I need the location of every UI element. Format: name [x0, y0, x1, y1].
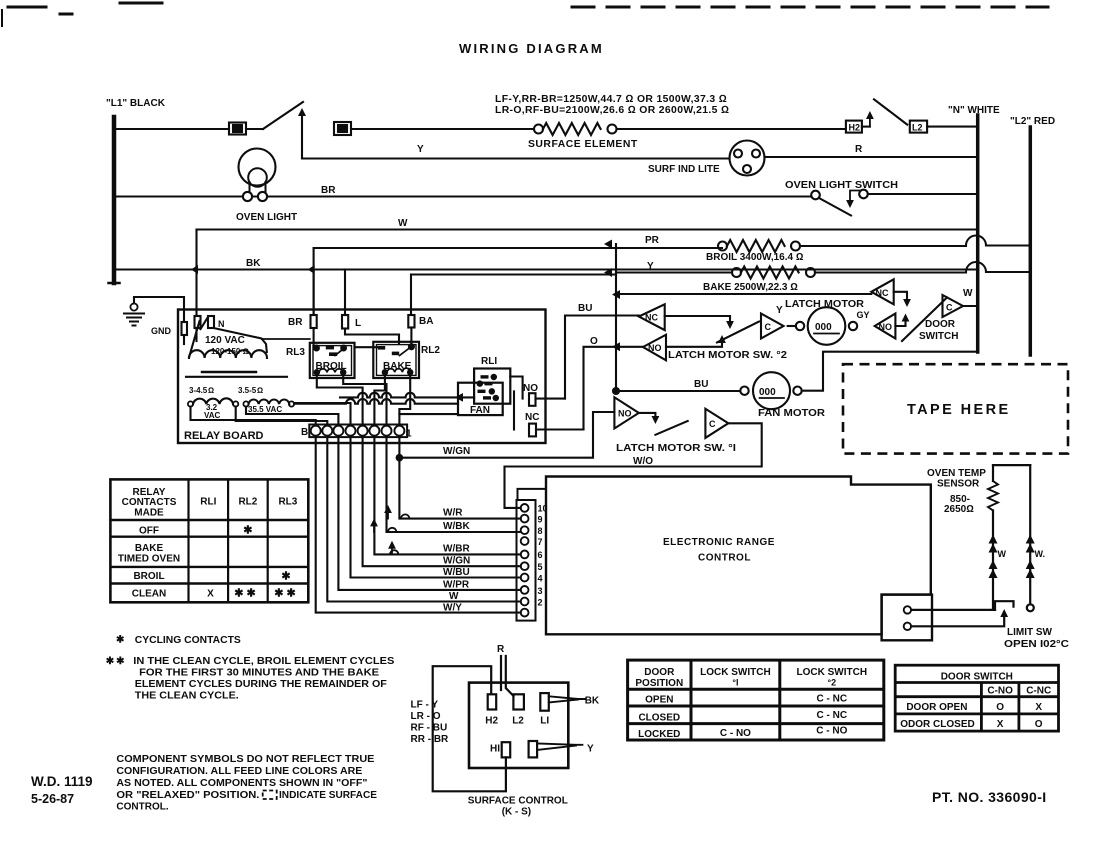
svg-text:LI: LI — [540, 716, 549, 727]
svg-text:W.: W. — [1035, 549, 1046, 559]
svg-text:O: O — [590, 336, 598, 347]
svg-text:NO: NO — [648, 343, 662, 353]
svg-text:X: X — [997, 719, 1004, 730]
svg-text:ODOR CLOSED: ODOR CLOSED — [900, 719, 974, 730]
svg-text:LR - O: LR - O — [411, 711, 441, 722]
svg-text:PT. NO. 336090-I: PT. NO. 336090-I — [932, 789, 1047, 805]
svg-text:RL2: RL2 — [421, 345, 440, 356]
svg-text:W/GN: W/GN — [443, 556, 470, 567]
svg-text:TIMED OVEN: TIMED OVEN — [118, 554, 180, 565]
svg-text:C: C — [709, 419, 716, 429]
svg-text:AS NOTED. ALL COMPONENTS SHOWN: AS NOTED. ALL COMPONENTS SHOWN IN "OFF" — [116, 778, 367, 789]
svg-text:°I: °I — [732, 678, 738, 688]
svg-text:CLEAN: CLEAN — [132, 589, 166, 600]
svg-text:RL2: RL2 — [238, 497, 257, 508]
svg-text:W/BK: W/BK — [443, 521, 470, 532]
svg-text:SWITCH: SWITCH — [919, 331, 958, 342]
svg-text:NC: NC — [525, 412, 539, 423]
svg-text:LIMIT SW: LIMIT SW — [1007, 627, 1053, 638]
svg-text:FOR THE FIRST 30 MINUTES AND T: FOR THE FIRST 30 MINUTES AND THE BAKE — [139, 668, 379, 679]
svg-text:INDICATE SURFACE: INDICATE SURFACE — [279, 790, 377, 801]
svg-text:C - NO: C - NO — [720, 728, 751, 739]
svg-text:RLI: RLI — [200, 497, 216, 508]
svg-text:RL3: RL3 — [278, 497, 297, 508]
svg-text:COMPONENT SYMBOLS DO NOT REFLE: COMPONENT SYMBOLS DO NOT REFLECT TRUE — [116, 754, 374, 765]
svg-text:HI: HI — [490, 744, 500, 755]
svg-text:✱✱: ✱✱ — [274, 588, 298, 600]
svg-text:LATCH MOTOR SW. °2: LATCH MOTOR SW. °2 — [668, 350, 787, 361]
svg-text:✱: ✱ — [243, 525, 252, 537]
svg-text:VAC: VAC — [204, 411, 221, 420]
svg-text:RR - BR: RR - BR — [411, 734, 450, 745]
svg-text:NO: NO — [618, 409, 632, 419]
svg-text:5: 5 — [538, 562, 543, 572]
svg-text:OVEN LIGHT: OVEN LIGHT — [236, 212, 297, 223]
svg-text:CONTROL: CONTROL — [698, 553, 751, 564]
svg-text:SURFACE ELEMENT: SURFACE ELEMENT — [528, 139, 638, 150]
svg-text:N: N — [218, 319, 225, 329]
svg-text:W/Y: W/Y — [443, 603, 462, 614]
svg-text:2: 2 — [538, 598, 543, 608]
svg-text:L2: L2 — [912, 123, 923, 133]
svg-text:BR: BR — [321, 185, 336, 196]
svg-text:O: O — [996, 702, 1004, 713]
svg-text:LF - Y: LF - Y — [411, 700, 439, 711]
svg-text:W/BR: W/BR — [443, 544, 470, 555]
svg-text:DOOR OPEN: DOOR OPEN — [906, 702, 967, 713]
svg-text:LATCH MOTOR SW. °I: LATCH MOTOR SW. °I — [616, 443, 736, 454]
svg-text:H2: H2 — [849, 123, 861, 133]
svg-text:TAPE HERE: TAPE HERE — [907, 402, 1011, 418]
svg-text:35.5 VAC: 35.5 VAC — [248, 405, 282, 414]
svg-text:C-NO: C-NO — [987, 686, 1013, 697]
svg-text:BU: BU — [694, 379, 708, 390]
svg-text:DOOR: DOOR — [644, 667, 675, 678]
svg-text:000: 000 — [815, 322, 832, 333]
svg-text:✱✱: ✱✱ — [106, 656, 127, 667]
svg-text:BROIL 3400W,16.4 Ω: BROIL 3400W,16.4 Ω — [706, 252, 804, 263]
svg-text:CONTROL.: CONTROL. — [116, 802, 168, 813]
svg-text:BAKE: BAKE — [383, 361, 412, 372]
svg-text:W/O: W/O — [633, 456, 653, 467]
svg-text:"L2" RED: "L2" RED — [1010, 116, 1055, 127]
svg-text:C: C — [946, 303, 953, 313]
svg-text:BAKE 2500W,22.3 Ω: BAKE 2500W,22.3 Ω — [703, 282, 798, 293]
svg-text:NO: NO — [879, 322, 893, 332]
svg-text:BA: BA — [419, 316, 433, 327]
svg-text:BU: BU — [578, 303, 592, 314]
svg-text:Y: Y — [587, 744, 594, 755]
svg-text:CONTACTS: CONTACTS — [122, 497, 177, 508]
svg-text:C - NC: C - NC — [817, 694, 848, 705]
svg-text:L: L — [355, 318, 361, 329]
svg-text:10: 10 — [538, 504, 548, 514]
svg-text:"N" WHITE: "N" WHITE — [948, 105, 1000, 116]
svg-text:DOOR: DOOR — [925, 319, 956, 330]
svg-text:C - NC: C - NC — [817, 710, 848, 721]
svg-text:LR-O,RF-BU=2100W,26.6 Ω OR 2: LR-O,RF-BU=2100W,26.6 Ω OR 2600W,21.5 Ω — [495, 105, 729, 116]
svg-text:X: X — [207, 589, 214, 600]
svg-text:NC: NC — [645, 313, 658, 323]
svg-text:LOCKED: LOCKED — [638, 729, 680, 740]
svg-text:BROIL: BROIL — [316, 361, 347, 372]
svg-text:W: W — [963, 288, 973, 299]
svg-text:CONFIGURATION. ALL FEED LINE C: CONFIGURATION. ALL FEED LINE COLORS ARE — [116, 766, 362, 777]
svg-text:SURF IND LITE: SURF IND LITE — [648, 164, 720, 175]
svg-text:H2: H2 — [485, 716, 498, 727]
svg-text:BAKE: BAKE — [135, 543, 164, 554]
svg-text:W/GN: W/GN — [443, 446, 470, 457]
svg-text:(K - S): (K - S) — [502, 807, 531, 818]
svg-text:NC: NC — [876, 288, 889, 298]
svg-text:8: 8 — [538, 526, 543, 536]
svg-text:ELECTRONIC RANGE: ELECTRONIC RANGE — [663, 537, 775, 548]
svg-text:LOCK SWITCH: LOCK SWITCH — [797, 667, 868, 678]
svg-text:9: 9 — [538, 515, 543, 525]
svg-text:ELEMENT CYCLES DURING THE REMA: ELEMENT CYCLES DURING THE REMAINDER OF — [135, 679, 387, 690]
svg-text:W: W — [998, 549, 1007, 559]
svg-text:CLOSED: CLOSED — [638, 713, 680, 724]
svg-text:✱: ✱ — [116, 635, 125, 646]
svg-text:W.D. 1119: W.D. 1119 — [31, 774, 93, 789]
svg-text:OFF: OFF — [139, 526, 159, 537]
svg-text:SURFACE CONTROL: SURFACE CONTROL — [468, 796, 568, 807]
svg-text:NO: NO — [523, 383, 538, 394]
svg-text:BR: BR — [288, 317, 303, 328]
svg-text:Y: Y — [417, 144, 424, 155]
svg-text:3: 3 — [538, 586, 543, 596]
svg-text:L2: L2 — [512, 716, 524, 727]
svg-text:✱: ✱ — [281, 571, 290, 583]
svg-text:W/PR: W/PR — [443, 580, 470, 591]
svg-text:RELAY: RELAY — [133, 487, 166, 498]
svg-text:C-NC: C-NC — [1026, 686, 1051, 697]
svg-text:PR: PR — [645, 235, 660, 246]
svg-text:RLI: RLI — [481, 356, 497, 367]
svg-text:000: 000 — [759, 387, 776, 398]
svg-text:OR "RELAXED" POSITION.: OR "RELAXED" POSITION. — [116, 790, 259, 801]
svg-text:GND: GND — [151, 326, 172, 336]
svg-text:RELAY BOARD: RELAY BOARD — [184, 430, 264, 442]
svg-text:MADE: MADE — [134, 508, 164, 519]
svg-text:OVEN LIGHT SWITCH: OVEN LIGHT SWITCH — [785, 180, 898, 191]
svg-text:120-150 Ω: 120-150 Ω — [211, 347, 249, 356]
svg-text:THE CLEAN CYCLE.: THE CLEAN CYCLE. — [135, 691, 239, 702]
svg-text:6: 6 — [538, 550, 543, 560]
svg-text:RL3: RL3 — [286, 347, 305, 358]
svg-text:DOOR SWITCH: DOOR SWITCH — [941, 672, 1013, 683]
svg-text:R: R — [855, 144, 863, 155]
svg-text:LOCK SWITCH: LOCK SWITCH — [700, 667, 771, 678]
svg-text:OVEN TEMP: OVEN TEMP — [927, 468, 986, 479]
svg-text:RF - BU: RF - BU — [411, 723, 448, 734]
svg-text:7: 7 — [538, 537, 543, 547]
svg-text:W: W — [398, 218, 408, 229]
svg-text:IN THE CLEAN CYCLE, BROIL ELEM: IN THE CLEAN CYCLE, BROIL ELEMENT CYCLES — [133, 656, 394, 667]
svg-text:4: 4 — [538, 574, 543, 584]
svg-text:WIRING DIAGRAM: WIRING DIAGRAM — [459, 41, 604, 56]
svg-text:SENSOR: SENSOR — [937, 479, 980, 490]
svg-text:BROIL: BROIL — [133, 571, 164, 582]
svg-text:5-26-87: 5-26-87 — [31, 792, 74, 806]
svg-text:POSITION: POSITION — [635, 678, 683, 689]
svg-text:W/BU: W/BU — [443, 567, 470, 578]
svg-text:3.5-5 Ω: 3.5-5 Ω — [238, 386, 263, 395]
svg-text:C - NO: C - NO — [816, 726, 847, 737]
svg-text:LF-Y,RR-BR=1250W,44.7 Ω OR 15: LF-Y,RR-BR=1250W,44.7 Ω OR 1500W,37.3 Ω — [495, 94, 727, 105]
svg-text:120 VAC: 120 VAC — [205, 335, 245, 346]
svg-text:O: O — [1035, 719, 1043, 730]
svg-text:B: B — [301, 427, 308, 438]
svg-text:GY: GY — [857, 310, 870, 320]
svg-text:"L1" BLACK: "L1" BLACK — [106, 98, 166, 109]
svg-text:Y: Y — [776, 305, 783, 316]
svg-text:3-4.5 Ω: 3-4.5 Ω — [189, 386, 214, 395]
svg-text:CYCLING CONTACTS: CYCLING CONTACTS — [135, 635, 241, 646]
svg-text:W: W — [449, 591, 459, 602]
svg-text:R: R — [497, 644, 505, 655]
svg-text:C: C — [765, 322, 772, 332]
svg-text:OPEN I02°C: OPEN I02°C — [1004, 639, 1069, 650]
svg-text:BK: BK — [585, 696, 600, 707]
svg-text:1: 1 — [406, 429, 412, 440]
svg-text:W/R: W/R — [443, 508, 463, 519]
svg-text:2650Ω: 2650Ω — [944, 504, 974, 515]
svg-text:X: X — [1035, 702, 1042, 713]
svg-text:FAN MOTOR: FAN MOTOR — [758, 408, 826, 419]
svg-text:OPEN: OPEN — [645, 695, 673, 706]
svg-text:LATCH MOTOR: LATCH MOTOR — [785, 299, 865, 310]
svg-text:BK: BK — [246, 258, 261, 269]
svg-text:✱✱: ✱✱ — [234, 588, 258, 600]
svg-text:°2: °2 — [827, 678, 836, 688]
svg-text:Y: Y — [647, 261, 654, 272]
svg-text:FAN: FAN — [470, 405, 490, 416]
